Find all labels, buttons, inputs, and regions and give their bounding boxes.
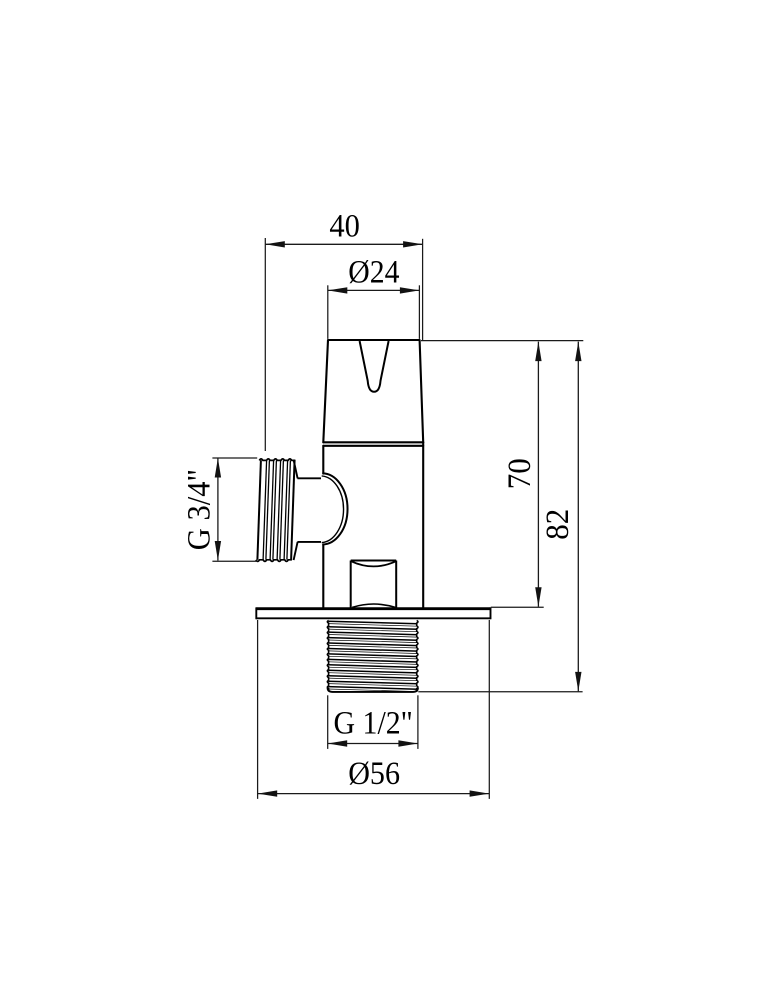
svg-text:82: 82 bbox=[540, 509, 576, 540]
svg-text:G 1/2": G 1/2" bbox=[334, 706, 413, 742]
svg-text:40: 40 bbox=[329, 209, 360, 245]
svg-text:Ø56: Ø56 bbox=[348, 756, 400, 792]
svg-text:Ø24: Ø24 bbox=[348, 255, 399, 291]
svg-text:G 3/4": G 3/4" bbox=[181, 469, 217, 550]
svg-text:70: 70 bbox=[502, 458, 538, 489]
